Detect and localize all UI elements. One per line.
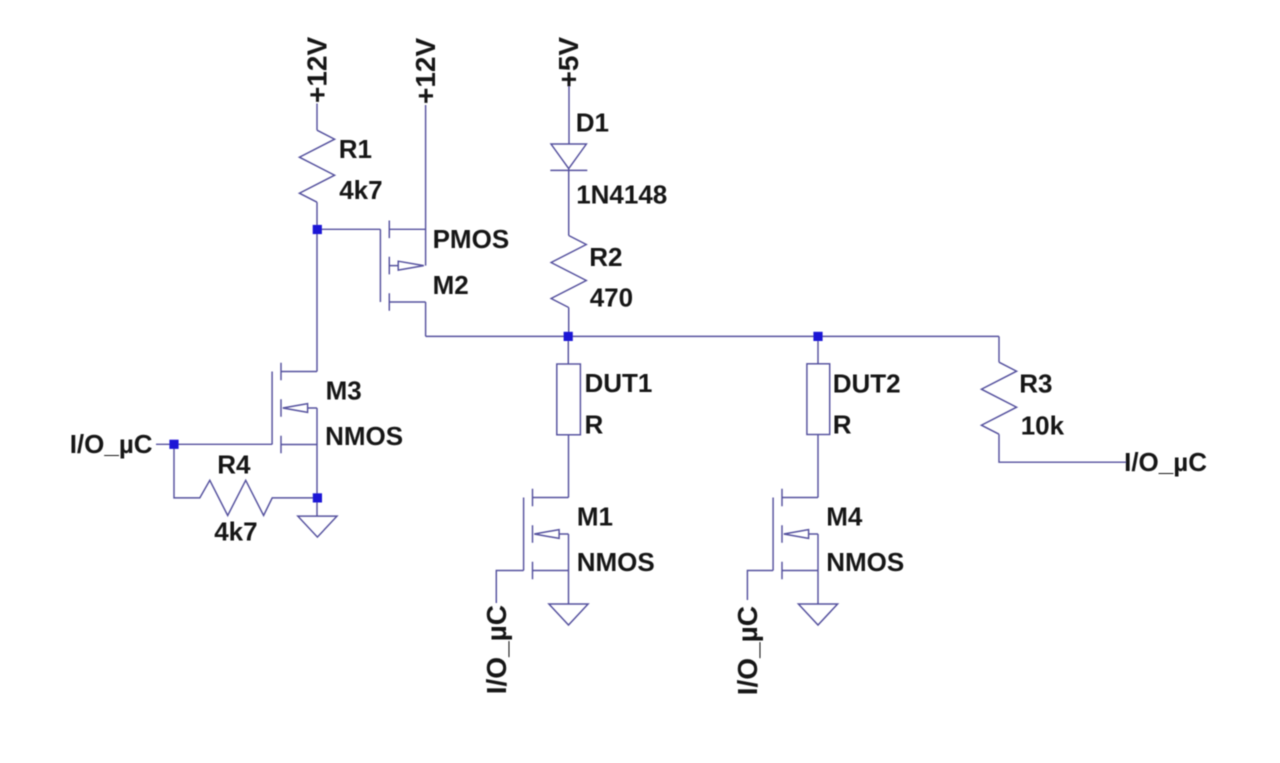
transistor M1 NMOS drain contact <box>533 497 569 499</box>
transistor M3 NMOS gate bar <box>271 372 273 445</box>
transistor M3 NMOS drain contact <box>281 371 317 373</box>
svg-text:I/O_µC: I/O_µC <box>70 429 153 459</box>
svg-text:+12V: +12V <box>302 37 333 103</box>
svg-text:PMOS: PMOS <box>433 224 510 254</box>
transistor M2 bulk arrow <box>389 261 424 270</box>
svg-text:M4: M4 <box>826 502 863 532</box>
junction node J5 bus/DUT2 <box>813 332 822 341</box>
resistor DUT1 box <box>557 364 581 435</box>
wire M2 drain to bus <box>425 302 427 336</box>
wire J1 to M2 gate <box>317 228 380 230</box>
wire bus to R3 <box>998 336 1000 362</box>
wire bus to DUT2 <box>817 336 819 363</box>
ground under M1 <box>549 604 588 625</box>
ground under M4 <box>798 604 837 625</box>
junction node J3 R4/M3 source/ground <box>313 493 322 502</box>
svg-text:I/O_µC: I/O_µC <box>481 605 512 694</box>
svg-text:R3: R3 <box>1019 369 1052 399</box>
transistor M1 NMOS channel dashes <box>532 489 534 580</box>
svg-text:+12V: +12V <box>410 38 441 104</box>
transistor M1 NMOS bulk arrow <box>534 530 568 539</box>
junction node J4 bus/R2/DUT1 <box>564 332 573 341</box>
svg-text:NMOS: NMOS <box>826 547 904 577</box>
svg-text:R: R <box>585 409 604 439</box>
resistor R2 <box>551 236 586 308</box>
wire M4 source to ground <box>817 571 819 605</box>
junction node J1 R1/M2/M3 <box>313 225 322 234</box>
wire M1 gate <box>496 571 523 604</box>
svg-text:10k: 10k <box>1021 410 1065 440</box>
wire I/O_uC to M3 gate <box>156 443 272 445</box>
resistor R3 <box>981 362 1016 434</box>
wire +5V to D1 <box>568 87 570 145</box>
svg-text:D1: D1 <box>576 108 609 138</box>
transistor M4 NMOS bulk arrow <box>784 530 818 539</box>
junction node J2 I/O_uC/M3 gate/R4 <box>169 440 178 449</box>
transistor M4 NMOS drain contact <box>782 497 818 499</box>
resistor R1 <box>316 104 318 131</box>
transistor M2 PMOS gate bar <box>379 229 381 302</box>
transistor M4 NMOS source contact <box>782 570 818 572</box>
transistor M2 drain contact <box>389 301 425 303</box>
svg-text:M3: M3 <box>326 376 362 406</box>
transistor M1 NMOS gate bar <box>523 498 525 571</box>
svg-text:1N4148: 1N4148 <box>576 180 667 210</box>
svg-text:DUT1: DUT1 <box>585 368 653 398</box>
transistor M1 NMOS source contact <box>533 570 569 572</box>
wire DUT2 to M4 drain <box>817 435 819 498</box>
transistor M3 NMOS source contact <box>281 444 317 446</box>
svg-text:R1: R1 <box>339 134 372 164</box>
svg-text:M2: M2 <box>433 270 469 300</box>
wire +12V to M2 source rail <box>425 105 427 266</box>
svg-text:I/O_µC: I/O_µC <box>1124 447 1207 477</box>
svg-text:R4: R4 <box>217 449 251 479</box>
wire J1 down to M3 drain <box>316 230 318 372</box>
svg-text:NMOS: NMOS <box>577 547 655 577</box>
wire bus to DUT1 <box>567 336 569 364</box>
svg-text:NMOS: NMOS <box>325 421 403 451</box>
wire M3 source to ground <box>316 444 318 516</box>
wire main bus <box>426 335 999 337</box>
wire M4 gate <box>747 571 773 601</box>
svg-text:4k7: 4k7 <box>214 517 257 547</box>
transistor M4 NMOS source rail <box>817 534 819 571</box>
transistor M3 NMOS bulk arrow <box>283 404 317 413</box>
wire DUT1 to M1 drain <box>568 435 570 498</box>
resistor R4 <box>174 444 317 515</box>
transistor M4 NMOS gate bar <box>772 498 774 571</box>
svg-text:R: R <box>833 409 852 439</box>
transistor M3 NMOS source rail <box>316 408 318 445</box>
wire D1 to R2 <box>568 169 570 236</box>
transistor M3 NMOS channel dashes <box>280 363 282 454</box>
svg-text:R2: R2 <box>589 242 622 272</box>
svg-text:4k7: 4k7 <box>339 175 382 205</box>
transistor M2 channel dashes <box>388 221 390 311</box>
svg-text:+5V: +5V <box>553 37 584 88</box>
ground under M3 <box>298 516 337 537</box>
wire M1 source to ground <box>568 571 570 605</box>
svg-text:470: 470 <box>590 282 633 312</box>
diode D1 <box>551 144 586 169</box>
svg-text:DUT2: DUT2 <box>833 369 901 399</box>
svg-text:M1: M1 <box>577 502 613 532</box>
svg-text:I/O_µC: I/O_µC <box>732 606 763 695</box>
resistor DUT2 box <box>807 364 830 435</box>
transistor M4 NMOS channel dashes <box>781 489 783 580</box>
transistor M2 source contact <box>389 228 425 230</box>
transistor M1 NMOS source rail <box>568 534 570 571</box>
